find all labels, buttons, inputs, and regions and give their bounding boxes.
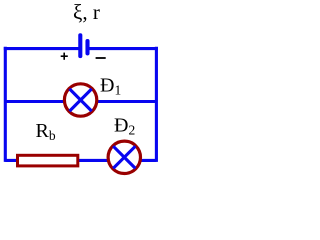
battery cell: short plate (-) (85, 41, 89, 53)
wire: top horizontal (left segment to battery) (4, 47, 80, 50)
wire: right vertical (155, 47, 158, 162)
svg-text:ξ, r: ξ, r (73, 0, 100, 24)
wire: top horizontal (battery to right) (87, 47, 157, 50)
wire: middle horizontal branch (5, 100, 156, 103)
battery cell: long plate (+) (78, 35, 82, 56)
wire: left vertical (4, 47, 7, 162)
lamp D1: cross (70, 89, 92, 111)
label: plus sign (61, 53, 68, 60)
svg-text:Rb: Rb (36, 120, 56, 143)
resistor R_b: box (18, 155, 78, 166)
label: minus sign (96, 57, 106, 59)
lamp D2: cross (113, 146, 135, 168)
wire: bottom horizontal (5, 159, 156, 162)
svg-text:Đ1: Đ1 (100, 74, 121, 97)
lamp D2: circle (108, 141, 140, 173)
lamp D1: circle (64, 84, 96, 116)
svg-text:Đ2: Đ2 (114, 115, 135, 138)
